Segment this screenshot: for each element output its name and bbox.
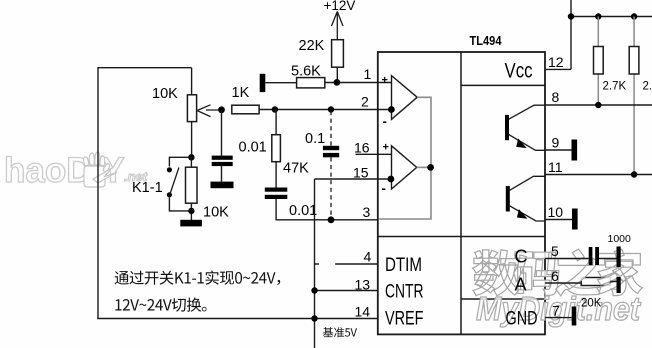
wire pin 2 row bbox=[259, 109, 391, 111]
svg-text:1K: 1K bbox=[232, 85, 250, 101]
wire R5 bottom lead bbox=[336, 67, 338, 82]
junction dot bus/op2 output bbox=[427, 164, 434, 171]
wire pin 5 bbox=[545, 258, 589, 260]
watermark 数码之家 bbox=[473, 249, 643, 296]
junction dot pin1 node bbox=[334, 79, 341, 86]
wire top riser bbox=[570, 0, 572, 69]
svg-text:2: 2 bbox=[361, 94, 369, 110]
junction dot pin3/C3 bbox=[328, 216, 335, 223]
resistor R2 10K body bbox=[186, 167, 198, 203]
wire pot bottom lead bbox=[191, 122, 193, 158]
note text line 1 bbox=[115, 271, 281, 286]
svg-text:A: A bbox=[515, 275, 527, 295]
wire pin 16 stub bbox=[356, 153, 392, 155]
svg-text:Vcc: Vcc bbox=[505, 60, 533, 83]
svg-text:-: - bbox=[382, 181, 386, 196]
transistor Q2 collector bbox=[510, 176, 546, 190]
ground (pin 6, sideways) bbox=[617, 277, 621, 293]
svg-text:22K: 22K bbox=[299, 38, 325, 54]
junction dot pin8/R7 bbox=[595, 102, 601, 108]
wire pot top lead bbox=[191, 68, 193, 95]
svg-text:5: 5 bbox=[551, 243, 559, 259]
svg-text:CNTR: CNTR bbox=[385, 282, 424, 303]
wire left box left side bbox=[97, 67, 99, 319]
wire pin 4 stub bbox=[315, 263, 378, 265]
wire pin 8 row bbox=[545, 104, 652, 106]
svg-text:10K: 10K bbox=[203, 205, 229, 221]
svg-text:6: 6 bbox=[551, 268, 559, 284]
wire R2 bottom lead bbox=[190, 203, 192, 220]
wire R4 top lead bbox=[275, 110, 277, 135]
svg-text:0.01: 0.01 bbox=[239, 140, 267, 156]
resistor R7 2.7K body bbox=[594, 47, 604, 75]
svg-text:47K: 47K bbox=[283, 161, 309, 177]
svg-text:12: 12 bbox=[548, 54, 564, 70]
svg-text:GND: GND bbox=[506, 309, 538, 330]
switch K1-1 contacts and lever bbox=[167, 167, 172, 172]
svg-text:1: 1 bbox=[364, 66, 372, 82]
wire pin 15 row bbox=[315, 178, 391, 180]
potentiometer RP1 10K body bbox=[187, 95, 196, 122]
wire left box top bbox=[98, 67, 192, 69]
svg-text:5.6K: 5.6K bbox=[291, 64, 321, 80]
svg-text:+: + bbox=[382, 75, 388, 87]
svg-text:11: 11 bbox=[548, 159, 563, 175]
note text line 2 bbox=[115, 298, 206, 312]
wire pin 10 stub bbox=[545, 219, 572, 221]
wire R2 top lead bbox=[190, 157, 192, 167]
wire R4 to C2 bbox=[275, 162, 277, 188]
junction dot wiper node bbox=[218, 106, 225, 113]
svg-text:16: 16 bbox=[354, 140, 370, 156]
ground (left of 5.6K, sideways) bbox=[260, 74, 266, 92]
transistor Q2 base bar bbox=[506, 186, 510, 212]
transistor Q2 emitter bbox=[510, 206, 546, 221]
IC GND overline bbox=[461, 298, 545, 300]
junction dot pin14 bbox=[311, 315, 317, 321]
IC internal horizontal divider bbox=[378, 236, 545, 238]
wire pin 6 bbox=[545, 282, 581, 284]
svg-text:9: 9 bbox=[552, 135, 560, 151]
op-amp error amp 1 bbox=[392, 76, 418, 120]
wire pin 7 bbox=[545, 317, 572, 319]
junction dot pot bottom bbox=[188, 154, 194, 160]
capacitor C1 0.01 plates bbox=[212, 156, 233, 160]
svg-text:+12V: +12V bbox=[324, 0, 356, 13]
svg-text:8: 8 bbox=[552, 89, 560, 105]
label 基准5V (paths) bbox=[323, 327, 357, 337]
svg-text:2.7K: 2.7K bbox=[643, 81, 652, 93]
svg-text:VREF: VREF bbox=[385, 309, 424, 330]
svg-text:2.7K: 2.7K bbox=[603, 81, 627, 93]
svg-text:TL494: TL494 bbox=[470, 33, 503, 48]
capacitor C1 0.01 top lead bbox=[221, 110, 223, 156]
svg-text:4: 4 bbox=[364, 249, 372, 265]
ground (below C1) bbox=[211, 182, 234, 189]
ground (below R2) bbox=[180, 220, 202, 227]
svg-text:20K: 20K bbox=[581, 298, 602, 310]
junction dot 47K top bbox=[272, 106, 278, 112]
capacitor C4 1000 plates bbox=[589, 247, 593, 265]
svg-text:13: 13 bbox=[355, 277, 371, 293]
wire dashed C3 top lead bbox=[330, 111, 332, 146]
svg-text:3: 3 bbox=[363, 204, 371, 220]
wire C4 to ground bbox=[599, 258, 617, 260]
wire switch top branch bbox=[169, 157, 191, 166]
svg-text:DTIM: DTIM bbox=[385, 255, 422, 276]
wire pin 11 row bbox=[545, 174, 652, 176]
svg-text:C: C bbox=[515, 247, 528, 267]
wire switch bottom branch bbox=[169, 197, 191, 211]
junction dot R2 bottom bbox=[188, 208, 194, 214]
junction dot pin13 bbox=[311, 287, 317, 293]
ground (pin 5 cap, sideways) bbox=[617, 247, 621, 268]
junction dot 0.1 top bbox=[328, 106, 334, 112]
svg-text:K1-1: K1-1 bbox=[132, 180, 163, 196]
wire dashed C3 bottom lead bbox=[330, 157, 332, 219]
svg-text:10: 10 bbox=[548, 204, 564, 220]
pot wiper arrow bbox=[197, 105, 221, 117]
svg-text:7: 7 bbox=[552, 303, 560, 319]
wire pin 9 stub bbox=[545, 149, 572, 151]
junction dots on rail bbox=[568, 13, 574, 19]
wire pin 12 bbox=[545, 68, 571, 70]
watermark haoDIY.net bbox=[4, 151, 148, 190]
wire 20K to ground bbox=[610, 281, 616, 283]
IC Vcc underline bbox=[461, 84, 545, 86]
capacitor C2 0.01 plates bbox=[265, 188, 288, 192]
resistor R8 2.7K leads bbox=[633, 17, 635, 175]
transistor Q1 emitter bbox=[509, 135, 545, 151]
svg-text:15: 15 bbox=[353, 165, 369, 181]
ground (pin 9, sideways) bbox=[572, 140, 578, 161]
svg-text:10K: 10K bbox=[152, 86, 178, 102]
transistor Q1 base bar bbox=[505, 115, 509, 140]
transistor Q1 collector bbox=[509, 105, 545, 119]
capacitor C3 0.1 plates bbox=[323, 146, 339, 150]
+12V arrow bbox=[332, 12, 344, 40]
svg-text:14: 14 bbox=[355, 304, 371, 320]
svg-text:-: - bbox=[383, 114, 387, 129]
junction dot op2 inverting input (pin 15) bbox=[388, 176, 395, 183]
op-amp error amp 2 bbox=[392, 146, 417, 189]
wire op-amp output bus (gray) bbox=[379, 97, 432, 219]
ground (pin 7, sideways) bbox=[572, 307, 577, 326]
resistor R8 2.7K body bbox=[629, 47, 639, 75]
hand logo in haoDIY watermark bbox=[84, 152, 118, 187]
junction dot op1 inverting input bbox=[388, 106, 395, 113]
junction dot pin11/R8 bbox=[631, 171, 637, 177]
IC internal vertical divider bbox=[460, 52, 462, 334]
resistor R6 5.6K body bbox=[297, 78, 325, 88]
resistor R5 22K body bbox=[332, 40, 344, 67]
wire +V top rail bbox=[571, 16, 652, 18]
wire pin 1 row bbox=[325, 82, 392, 84]
capacitor C1 bottom lead bbox=[221, 166, 223, 182]
wire 5.6K left lead bbox=[265, 82, 296, 84]
svg-text:0.01: 0.01 bbox=[289, 203, 317, 219]
wire pin 3 row bbox=[276, 199, 378, 220]
resistor R3 1K body bbox=[232, 105, 259, 114]
resistor R4 47K body bbox=[272, 135, 281, 162]
wire VREF bottom rail (pin 14) bbox=[97, 318, 378, 320]
wire VREF riser bbox=[314, 179, 316, 348]
ground (pin 10, sideways) bbox=[572, 209, 578, 230]
IC U1 TL494 outline bbox=[378, 52, 545, 334]
wire pin 13 row bbox=[315, 290, 378, 292]
resistor R9 20K body (under watermark) bbox=[581, 278, 610, 286]
resistor R7 2.7K leads bbox=[597, 17, 599, 106]
svg-text:+: + bbox=[383, 142, 389, 154]
svg-text:1000: 1000 bbox=[608, 233, 632, 245]
svg-text:0.1: 0.1 bbox=[305, 131, 325, 147]
